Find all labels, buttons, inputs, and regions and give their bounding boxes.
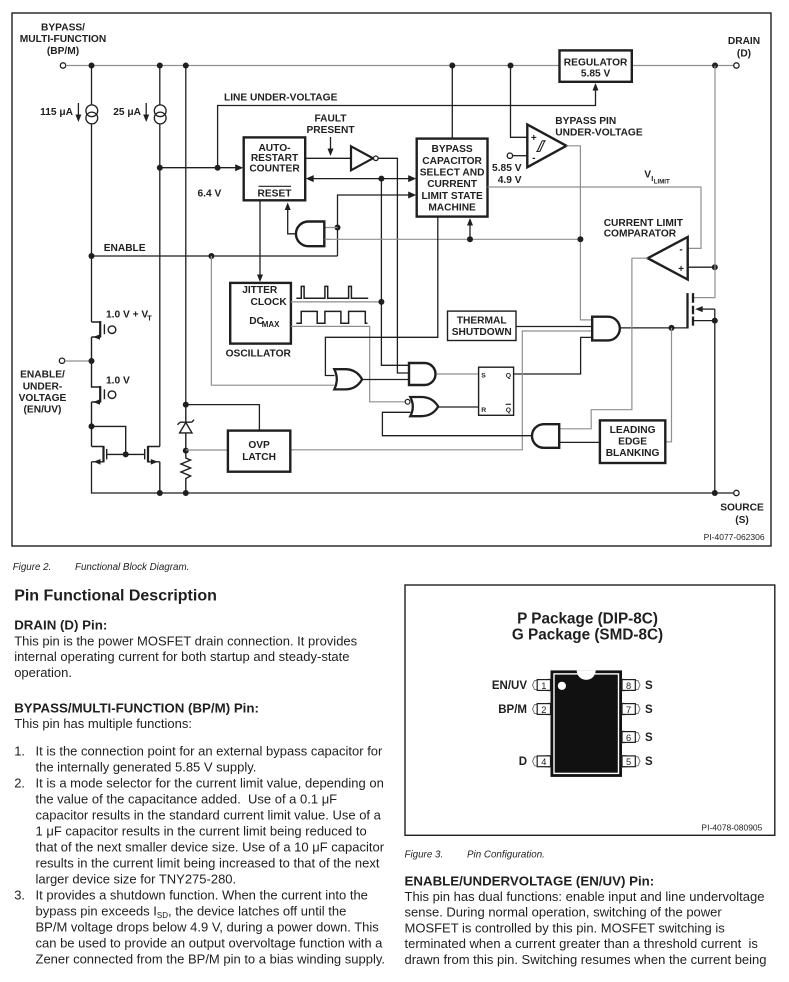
svg-text:V: V xyxy=(644,170,651,181)
svg-text:Functional Block Diagram.: Functional Block Diagram. xyxy=(75,562,189,573)
svg-text:BLANKING: BLANKING xyxy=(606,448,660,459)
pin 8 xyxy=(622,679,640,691)
svg-text:the value of the capacitance a: the value of the capacitance added. Use … xyxy=(36,792,338,807)
svg-text:OVP: OVP xyxy=(248,440,270,451)
svg-text:1 μF capacitor results in the: 1 μF capacitor results in the current li… xyxy=(36,824,367,839)
diode D1 zener xyxy=(183,402,189,408)
wire clock output xyxy=(291,301,382,303)
svg-text:6: 6 xyxy=(626,733,631,743)
svg-text:+: + xyxy=(531,133,537,144)
svg-text:ENABLE: ENABLE xyxy=(104,243,146,254)
thermal shutdown U8 xyxy=(448,311,517,340)
svg-text:It is a mode selector for the: It is a mode selector for the current li… xyxy=(36,776,384,791)
svg-text:UNDER-VOLTAGE: UNDER-VOLTAGE xyxy=(555,128,643,139)
wire buffer output down to AND2 xyxy=(378,158,409,373)
svg-text:results in the current limit b: results in the current limit being incre… xyxy=(36,856,380,871)
svg-text:1.0 V + V: 1.0 V + V xyxy=(106,310,148,321)
svg-text:the internally generated 5.85: the internally generated 5.85 V supply. xyxy=(36,760,257,775)
svg-text:BYPASS/MULTI-FUNCTION (BP/M) P: BYPASS/MULTI-FUNCTION (BP/M) Pin: xyxy=(14,700,259,715)
wire 6.4V node into auto-restart counter xyxy=(160,167,236,169)
wire state machine output to OR1 xyxy=(325,217,437,376)
svg-text:DRAIN (D) Pin:: DRAIN (D) Pin: xyxy=(14,618,107,633)
svg-text:internal operating current for: internal operating current for both star… xyxy=(14,649,349,664)
wire G6 output to OR2 xyxy=(382,412,532,435)
svg-text:7: 7 xyxy=(626,705,631,715)
wire clock line to counter and state machine (double arrow) xyxy=(313,178,410,180)
wire comparator plus input from source sense xyxy=(688,266,715,268)
svg-text:Zener connected from the BP/M: Zener connected from the BP/M pin to a b… xyxy=(36,952,386,967)
svg-text:This pin has dual functions: e: This pin has dual functions: enable inpu… xyxy=(405,889,765,904)
svg-text:DRAIN: DRAIN xyxy=(728,36,760,47)
node BP/M terminal xyxy=(60,63,65,68)
svg-text:Pin Functional Description: Pin Functional Description xyxy=(14,588,217,605)
svg-text:LIMIT STATE: LIMIT STATE xyxy=(421,191,483,202)
svg-text:3.: 3. xyxy=(14,888,25,903)
svg-text:This pin is the power MOSFET d: This pin is the power MOSFET drain conne… xyxy=(14,633,357,648)
svg-text:MULTI-FUNCTION: MULTI-FUNCTION xyxy=(20,34,106,45)
svg-text:P Package (DIP-8C): P Package (DIP-8C) xyxy=(517,610,658,627)
leading edge blanking U10 xyxy=(600,420,665,463)
wire thermal to AND4 xyxy=(516,326,592,328)
svg-text:CURRENT: CURRENT xyxy=(427,179,478,190)
svg-text:COMPARATOR: COMPARATOR xyxy=(604,229,677,240)
svg-text:6.4 V: 6.4 V xyxy=(198,189,222,200)
wire Vilimit from state machine to comparator xyxy=(488,187,702,248)
wire bus to state machine top xyxy=(451,66,453,139)
or gate G2 xyxy=(334,369,362,389)
svg-text:MOSFET is controlled by this p: MOSFET is controlled by this pin. MOSFET… xyxy=(405,920,726,935)
wire mirror gate node xyxy=(89,423,95,429)
package body DIP-8 xyxy=(551,670,623,777)
wire AND2 output to S input xyxy=(437,373,479,375)
svg-text:UNDER-: UNDER- xyxy=(23,381,63,392)
svg-text:(S): (S) xyxy=(735,515,749,526)
svg-text:drawn from this pin. Switching: drawn from this pin. Switching resumes w… xyxy=(405,952,767,967)
wire DCmax output to OR2 inverted input xyxy=(291,326,405,401)
transistor Q5 NMOS mirror right xyxy=(148,447,160,494)
svg-text:Q: Q xyxy=(506,373,511,380)
svg-text:CLOCK: CLOCK xyxy=(250,297,287,308)
svg-text:RESTART: RESTART xyxy=(251,153,299,164)
svg-text:1: 1 xyxy=(541,681,546,691)
svg-text:BYPASS/: BYPASS/ xyxy=(41,23,85,34)
svg-text:CURRENT LIMIT: CURRENT LIMIT xyxy=(604,218,684,229)
svg-text:R: R xyxy=(481,407,486,414)
svg-text:AUTO-: AUTO- xyxy=(258,143,290,154)
transistor Q4 NMOS mirror left xyxy=(92,447,104,462)
wire comparator output to LEB gate xyxy=(559,258,647,429)
wire OR2 output to R input xyxy=(438,406,478,408)
figure 3 frame xyxy=(405,585,775,835)
svg-text:1.0 V: 1.0 V xyxy=(106,376,130,387)
pin 4 xyxy=(533,755,551,767)
svg-text:S: S xyxy=(645,732,653,744)
current source I2 25uA xyxy=(159,66,161,106)
svg-text:LIMIT: LIMIT xyxy=(654,179,670,186)
package pin1 dot xyxy=(558,682,566,690)
svg-text:SELECT AND: SELECT AND xyxy=(420,168,485,179)
svg-text:VOLTAGE: VOLTAGE xyxy=(19,393,67,404)
pin 2 xyxy=(533,703,551,715)
node SOURCE terminal xyxy=(734,490,739,495)
svg-text:5.85 V: 5.85 V xyxy=(492,163,522,174)
regulator U1 5.85V xyxy=(560,50,632,81)
and gate G6 blanking (mirrored, output left) xyxy=(532,424,559,448)
package notch xyxy=(577,670,596,680)
wire LEB box to gate G6 xyxy=(559,441,600,443)
wire OVP latch output to AND4 xyxy=(290,331,592,450)
latch U7 SR flip-flop xyxy=(479,367,514,415)
svg-text:D: D xyxy=(519,756,527,768)
waveform DCmax square wave xyxy=(296,311,367,323)
auto-restart counter U2 xyxy=(244,137,306,200)
svg-text:1.: 1. xyxy=(14,744,25,759)
svg-text:COUNTER: COUNTER xyxy=(249,164,300,175)
svg-text:OSCILLATOR: OSCILLATOR xyxy=(226,348,292,359)
svg-text:8: 8 xyxy=(626,681,631,691)
svg-text:bypass pin exceeds ISD, the de: bypass pin exceeds ISD, the device latch… xyxy=(36,904,347,921)
wire OR1 to AND2 xyxy=(362,379,409,381)
pin 7 xyxy=(622,703,640,715)
svg-text:S: S xyxy=(645,756,653,768)
svg-text:2.: 2. xyxy=(14,776,25,791)
svg-text:25 μA: 25 μA xyxy=(113,107,141,118)
svg-text:sense. During normal operation: sense. During normal operation, switchin… xyxy=(405,905,723,920)
wire enable down to OR1 xyxy=(211,256,334,385)
wire BP/M top bus xyxy=(66,65,734,67)
latch U11 OVP xyxy=(228,431,290,472)
svg-text:S: S xyxy=(645,680,653,692)
svg-text:terminated when a current grea: terminated when a current greater than a… xyxy=(405,936,759,951)
wire 115uA branch down to PMOS stack xyxy=(91,124,93,322)
svg-text:ENABLE/: ENABLE/ xyxy=(20,370,65,381)
wire comparator output down to AND4 xyxy=(566,146,592,320)
svg-text:LEADING: LEADING xyxy=(610,425,656,436)
svg-text:It provides a shutdown functio: It provides a shutdown function. When th… xyxy=(36,888,368,903)
pin 1 xyxy=(533,679,551,691)
svg-text:SHUTDOWN: SHUTDOWN xyxy=(452,327,512,338)
svg-text:5.85 V: 5.85 V xyxy=(581,69,611,80)
svg-text:This pin has multiple function: This pin has multiple functions: xyxy=(14,716,192,731)
svg-text:JITTER: JITTER xyxy=(242,285,278,296)
svg-text:BP/M voltage drops below 4.9 V: BP/M voltage drops below 4.9 V, during a… xyxy=(36,920,380,935)
and gate G5 gate drive xyxy=(592,317,620,341)
svg-text:CAPACITOR: CAPACITOR xyxy=(422,156,482,167)
svg-text:2: 2 xyxy=(541,705,546,715)
svg-text:RESET: RESET xyxy=(258,189,293,200)
svg-text:S: S xyxy=(645,704,653,716)
node DRAIN terminal xyxy=(734,63,739,68)
current source I1 115uA xyxy=(91,66,93,106)
and gate G1 reset (mirrored, output left) xyxy=(325,228,338,240)
or gate G4 with inverted input xyxy=(405,399,410,404)
svg-text:larger device size for TNY275-: larger device size for TNY275-280. xyxy=(36,872,237,887)
wire third branch down to zener node xyxy=(185,66,187,405)
svg-text:EDGE: EDGE xyxy=(618,437,647,448)
svg-text:115 μA: 115 μA xyxy=(40,107,73,118)
wire 25uA branch down to mirror xyxy=(159,124,161,447)
svg-text:can be used to provide an outp: can be used to provide an output overvol… xyxy=(36,936,384,951)
svg-text:Q: Q xyxy=(506,407,511,414)
diagram border frame xyxy=(12,13,771,546)
wire comparator output branch to reset gate and state machine xyxy=(325,238,581,240)
svg-text:PI-4077-062306: PI-4077-062306 xyxy=(704,532,765,542)
wire zener node to OVP latch input xyxy=(186,449,228,451)
svg-text:(D): (D) xyxy=(737,49,751,60)
wire zener node to OVP latch top xyxy=(186,405,260,430)
svg-text:operation.: operation. xyxy=(14,665,72,680)
svg-text:+: + xyxy=(678,264,684,275)
svg-text:BP/M: BP/M xyxy=(498,704,527,716)
wire counter output to oscillator xyxy=(259,200,261,275)
svg-text:LATCH: LATCH xyxy=(242,452,276,463)
svg-text:Pin Configuration.: Pin Configuration. xyxy=(467,849,545,860)
svg-text:ENABLE/UNDERVOLTAGE (EN/UV) Pi: ENABLE/UNDERVOLTAGE (EN/UV) Pin: xyxy=(405,873,655,888)
pin 5 xyxy=(622,755,640,767)
svg-text:S: S xyxy=(481,373,486,380)
transistor Q1 power MOSFET xyxy=(686,293,688,328)
svg-text:PI-4078-080905: PI-4078-080905 xyxy=(701,822,762,832)
svg-text:Figure 2.: Figure 2. xyxy=(13,562,52,573)
svg-text:(BP/M): (BP/M) xyxy=(47,46,79,57)
svg-text:LINE UNDER-VOLTAGE: LINE UNDER-VOLTAGE xyxy=(224,93,338,104)
svg-text:BYPASS: BYPASS xyxy=(432,144,473,155)
svg-text:5: 5 xyxy=(626,757,631,767)
svg-text:BYPASS PIN: BYPASS PIN xyxy=(555,116,616,127)
pin 6 xyxy=(622,731,640,743)
svg-text:PRESENT: PRESENT xyxy=(306,125,355,136)
buffer U3 fault inverter xyxy=(305,157,351,159)
svg-text:capacitor results in the stand: capacitor results in the standard curren… xyxy=(36,808,382,823)
svg-text:REGULATOR: REGULATOR xyxy=(564,58,628,69)
wire Q output up to AND4 xyxy=(514,337,593,374)
oscillator U4 xyxy=(230,283,291,344)
svg-text:SOURCE: SOURCE xyxy=(720,503,764,514)
svg-text:(EN/UV): (EN/UV) xyxy=(24,405,62,416)
svg-text:G Package (SMD-8C): G Package (SMD-8C) xyxy=(512,626,663,643)
svg-text:Figure 3.: Figure 3. xyxy=(405,849,444,860)
svg-text:4.9 V: 4.9 V xyxy=(498,175,522,186)
wire bottom source rail xyxy=(92,462,734,493)
svg-text:MAX: MAX xyxy=(262,320,280,329)
svg-text:-: - xyxy=(532,153,535,164)
symbol hysteresis xyxy=(536,141,546,152)
state machine U5 bypass capacitor select xyxy=(417,139,488,217)
wire gate node down to LEB box xyxy=(666,328,672,442)
svg-text:THERMAL: THERMAL xyxy=(457,315,507,326)
svg-text:It is the connection point for: It is the connection point for an extern… xyxy=(36,744,384,759)
wire drain line xyxy=(694,66,715,298)
resistor R1 xyxy=(183,448,189,454)
wire clock vertical distribution xyxy=(381,179,409,366)
waveform jitter clock pulses xyxy=(296,286,368,298)
node junction dots on top bus xyxy=(89,63,95,69)
svg-text:-: - xyxy=(679,245,682,256)
node EN/UV terminal xyxy=(59,358,64,363)
wire AND4 output to MOSFET gate xyxy=(620,327,687,329)
wire enable into state machine xyxy=(338,195,410,256)
and gate G3 clock gating xyxy=(409,363,436,385)
svg-text:EN/UV: EN/UV xyxy=(492,680,527,692)
svg-text:FAULT: FAULT xyxy=(314,113,347,124)
svg-text:4: 4 xyxy=(541,757,546,767)
svg-text:MACHINE: MACHINE xyxy=(428,203,476,214)
svg-text:T: T xyxy=(147,314,152,323)
svg-text:that of the next smaller devic: that of the next smaller device size. Us… xyxy=(36,840,385,855)
